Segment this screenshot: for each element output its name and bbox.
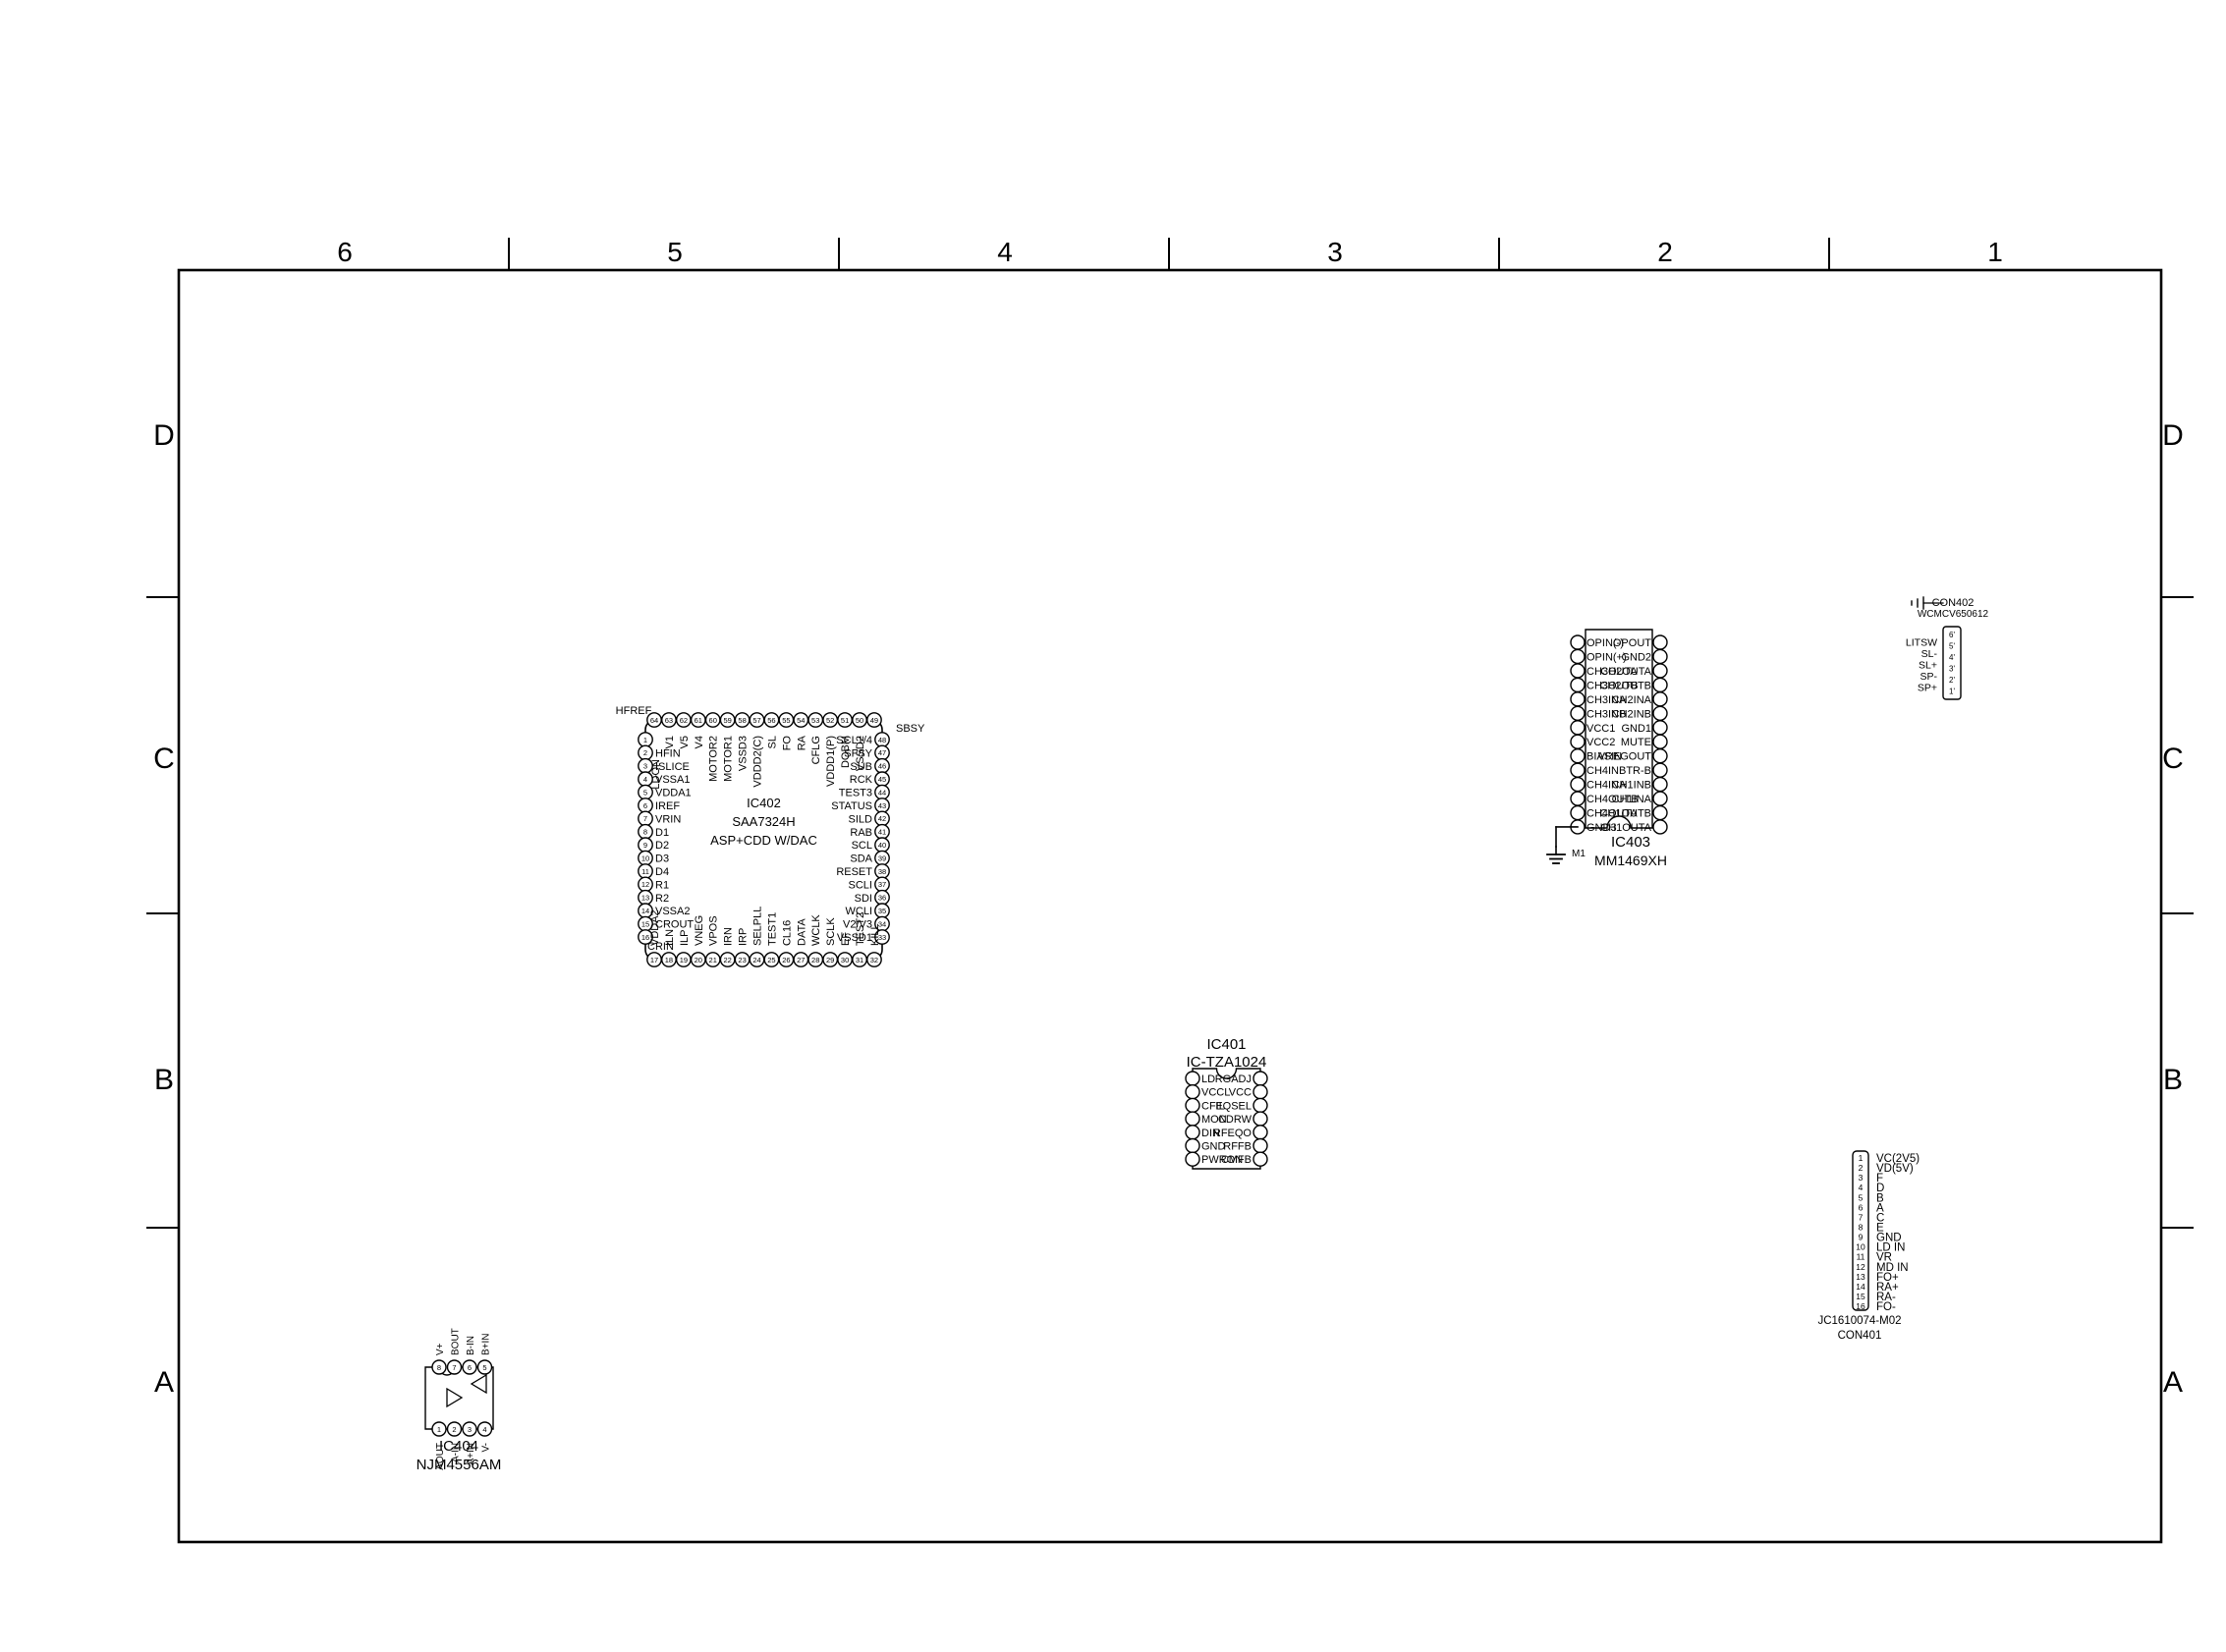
svg-text:TEST1: TEST1 (766, 912, 778, 946)
svg-text:39: 39 (878, 854, 886, 862)
svg-text:60: 60 (709, 716, 717, 725)
svg-text:D: D (153, 419, 175, 452)
svg-text:RGADJ: RGADJ (1215, 1074, 1252, 1085)
svg-text:WCLK: WCLK (810, 914, 822, 946)
svg-text:CMFB: CMFB (1221, 1154, 1252, 1166)
svg-text:8: 8 (643, 828, 647, 837)
svg-text:9: 9 (643, 841, 647, 850)
svg-text:12: 12 (1856, 1262, 1865, 1272)
svg-text:29: 29 (826, 956, 834, 964)
svg-text:19: 19 (680, 956, 688, 964)
svg-text:MOTOR1: MOTOR1 (723, 736, 735, 782)
svg-text:14: 14 (641, 907, 649, 915)
svg-text:LD: LD (1201, 1074, 1215, 1085)
svg-text:V+: V+ (435, 1343, 446, 1355)
svg-text:D3: D3 (655, 854, 669, 865)
svg-text:V4: V4 (694, 736, 705, 748)
svg-text:SP-: SP- (1920, 671, 1937, 683)
svg-text:41: 41 (878, 828, 886, 837)
svg-text:RFFB: RFFB (1223, 1141, 1252, 1153)
svg-text:38: 38 (878, 867, 886, 876)
svg-text:BOUT: BOUT (451, 1328, 462, 1355)
svg-text:4: 4 (997, 237, 1013, 267)
svg-text:2: 2 (1657, 237, 1673, 267)
svg-text:50: 50 (856, 716, 863, 725)
svg-text:CL16: CL16 (781, 920, 793, 946)
svg-text:SCLK: SCLK (825, 917, 837, 946)
svg-text:3: 3 (1327, 237, 1343, 267)
svg-text:12: 12 (641, 880, 649, 889)
svg-text:37: 37 (878, 880, 886, 889)
svg-text:9: 9 (1859, 1233, 1864, 1242)
svg-text:SDA: SDA (850, 854, 872, 865)
svg-text:B: B (2163, 1064, 2183, 1096)
svg-text:SCLI: SCLI (849, 879, 872, 891)
svg-text:SCL: SCL (852, 840, 872, 852)
svg-text:SAA7324H: SAA7324H (732, 814, 795, 829)
svg-text:53: 53 (811, 716, 819, 725)
svg-text:6': 6' (1949, 631, 1955, 639)
svg-text:C: C (153, 743, 175, 775)
svg-text:CH1OUTB: CH1OUTB (1599, 808, 1651, 820)
svg-text:52: 52 (826, 716, 834, 725)
svg-text:CH2INB: CH2INB (1612, 708, 1651, 720)
svg-text:CON401: CON401 (1838, 1330, 1882, 1342)
svg-text:6: 6 (337, 237, 353, 267)
svg-text:VDDA1: VDDA1 (655, 788, 692, 799)
svg-text:27: 27 (797, 956, 805, 964)
svg-text:25: 25 (767, 956, 775, 964)
svg-text:VCC2: VCC2 (1586, 737, 1615, 748)
svg-text:VPOS: VPOS (708, 915, 720, 946)
svg-text:10: 10 (641, 854, 649, 862)
svg-text:55: 55 (782, 716, 790, 725)
svg-text:17: 17 (650, 956, 658, 964)
svg-text:54: 54 (797, 716, 805, 725)
svg-text:18: 18 (665, 956, 673, 964)
svg-text:CDRW: CDRW (1218, 1114, 1252, 1126)
svg-text:VRIN: VRIN (655, 813, 681, 825)
svg-text:D: D (2162, 419, 2184, 452)
svg-text:57: 57 (752, 716, 760, 725)
svg-text:EF: EF (840, 932, 852, 946)
svg-text:59: 59 (723, 716, 731, 725)
svg-text:TEST2: TEST2 (855, 912, 866, 946)
svg-text:23: 23 (738, 956, 746, 964)
svg-text:43: 43 (878, 801, 886, 810)
svg-text:MM1469XH: MM1469XH (1594, 853, 1667, 868)
svg-text:FO: FO (781, 736, 793, 751)
svg-text:CH2INA: CH2INA (1612, 694, 1652, 706)
svg-text:4: 4 (482, 1425, 486, 1434)
svg-text:36: 36 (878, 894, 886, 903)
svg-text:26: 26 (782, 956, 790, 964)
svg-text:VCC1: VCC1 (1586, 723, 1615, 735)
svg-text:6: 6 (468, 1363, 472, 1372)
svg-text:SL-: SL- (1921, 648, 1938, 660)
svg-text:MUTE: MUTE (1621, 737, 1651, 748)
svg-text:7: 7 (643, 814, 647, 823)
svg-text:LITSW: LITSW (1906, 637, 1937, 649)
svg-text:24: 24 (752, 956, 760, 964)
svg-text:ILP: ILP (679, 929, 691, 946)
svg-text:V-: V- (481, 1443, 492, 1452)
svg-text:GND: GND (1201, 1141, 1226, 1153)
svg-text:C: C (2162, 743, 2184, 775)
svg-text:61: 61 (695, 716, 702, 725)
svg-text:MOTOR2: MOTOR2 (708, 736, 720, 782)
svg-text:VDDA2: VDDA2 (649, 909, 661, 946)
svg-text:CH1INA: CH1INA (1612, 794, 1652, 805)
svg-text:TR-B: TR-B (1626, 765, 1651, 777)
svg-text:49: 49 (870, 716, 878, 725)
svg-text:CH2OUTA: CH2OUTA (1600, 666, 1651, 678)
svg-text:CH1OUTA: CH1OUTA (1600, 822, 1651, 834)
svg-text:DATA: DATA (796, 918, 807, 946)
svg-text:IRN: IRN (723, 927, 735, 946)
svg-text:5: 5 (1859, 1192, 1864, 1202)
svg-text:VDDD2(C): VDDD2(C) (752, 736, 764, 788)
svg-text:SL+: SL+ (1919, 660, 1937, 672)
svg-text:HFIN: HFIN (655, 747, 681, 759)
svg-text:4: 4 (643, 775, 647, 784)
svg-text:4': 4' (1949, 653, 1955, 662)
svg-text:ISLICE: ISLICE (655, 761, 690, 773)
svg-text:45: 45 (878, 775, 886, 784)
svg-text:SILD: SILD (849, 813, 873, 825)
svg-text:SFSY: SFSY (844, 747, 872, 759)
svg-text:44: 44 (878, 788, 886, 797)
svg-text:11: 11 (1857, 1252, 1865, 1262)
svg-text:35: 35 (878, 907, 886, 915)
svg-text:SBSY: SBSY (896, 723, 925, 735)
svg-text:42: 42 (878, 814, 886, 823)
svg-text:40: 40 (878, 841, 886, 850)
svg-text:56: 56 (767, 716, 775, 725)
svg-text:21: 21 (709, 956, 717, 964)
svg-text:28: 28 (811, 956, 819, 964)
svg-text:5: 5 (667, 237, 683, 267)
svg-text:5: 5 (643, 788, 647, 797)
svg-text:51: 51 (841, 716, 849, 725)
svg-text:RA: RA (796, 735, 807, 750)
svg-text:5: 5 (482, 1363, 486, 1372)
svg-text:VSSD3: VSSD3 (738, 736, 750, 771)
svg-text:IREF: IREF (655, 800, 680, 812)
svg-text:IC404: IC404 (439, 1438, 478, 1455)
svg-text:D1: D1 (655, 827, 669, 839)
svg-text:6: 6 (1859, 1202, 1864, 1212)
svg-text:JC1610074-M02: JC1610074-M02 (1817, 1315, 1901, 1327)
svg-text:2': 2' (1949, 676, 1955, 685)
svg-text:11: 11 (641, 867, 649, 876)
svg-text:5': 5' (1949, 642, 1955, 651)
svg-text:RAB: RAB (850, 827, 872, 839)
svg-text:15: 15 (1856, 1292, 1865, 1301)
svg-text:VNEG: VNEG (694, 915, 705, 946)
svg-text:10: 10 (1856, 1242, 1865, 1252)
svg-text:NJM4556AM: NJM4556AM (417, 1457, 502, 1473)
svg-text:62: 62 (680, 716, 688, 725)
svg-text:TEST3: TEST3 (839, 788, 872, 799)
svg-text:VCC: VCC (1229, 1087, 1252, 1099)
svg-text:B+IN: B+IN (481, 1333, 492, 1355)
svg-text:63: 63 (665, 716, 673, 725)
svg-text:SL: SL (766, 736, 778, 748)
svg-text:ASP+CDD W/DAC: ASP+CDD W/DAC (710, 833, 817, 848)
svg-text:IC-TZA1024: IC-TZA1024 (1187, 1054, 1267, 1071)
svg-text:16: 16 (1856, 1301, 1865, 1311)
svg-text:VREGOUT: VREGOUT (1598, 751, 1652, 763)
svg-text:3: 3 (468, 1425, 472, 1434)
svg-text:7: 7 (452, 1363, 456, 1372)
svg-text:RESET: RESET (836, 866, 872, 878)
svg-text:IRP: IRP (738, 928, 750, 946)
svg-text:SP+: SP+ (1918, 683, 1937, 694)
svg-text:R1: R1 (655, 879, 669, 891)
svg-text:15: 15 (641, 919, 649, 928)
svg-text:30: 30 (841, 956, 849, 964)
svg-text:2: 2 (452, 1425, 456, 1434)
svg-text:46: 46 (878, 762, 886, 771)
svg-text:OPOUT: OPOUT (1613, 637, 1651, 649)
svg-text:CH2OUTB: CH2OUTB (1599, 680, 1651, 691)
svg-text:GND1: GND1 (1621, 723, 1651, 735)
svg-text:FO-: FO- (1876, 1301, 1896, 1313)
svg-text:1': 1' (1949, 688, 1955, 696)
svg-text:CH1INB: CH1INB (1612, 780, 1651, 792)
svg-text:20: 20 (695, 956, 702, 964)
svg-text:8: 8 (1859, 1222, 1864, 1232)
svg-text:WCMCV650612: WCMCV650612 (1918, 609, 1989, 620)
svg-text:STATUS: STATUS (831, 800, 872, 812)
svg-text:14: 14 (1856, 1282, 1865, 1292)
svg-text:3: 3 (1859, 1173, 1864, 1183)
svg-text:13: 13 (1856, 1272, 1865, 1282)
svg-text:B-IN: B-IN (466, 1336, 476, 1355)
svg-text:A: A (154, 1366, 174, 1399)
svg-text:2: 2 (1859, 1163, 1864, 1173)
svg-text:7: 7 (1859, 1212, 1864, 1222)
svg-text:ILN: ILN (664, 929, 676, 946)
svg-text:RCK: RCK (850, 774, 873, 786)
svg-text:EQSEL: EQSEL (1215, 1100, 1252, 1112)
svg-text:A: A (2163, 1366, 2183, 1399)
svg-text:4: 4 (1859, 1183, 1864, 1192)
svg-text:6: 6 (643, 801, 647, 810)
svg-text:1: 1 (1859, 1153, 1864, 1163)
svg-text:3': 3' (1949, 665, 1955, 674)
svg-text:48: 48 (878, 736, 886, 744)
svg-text:R2: R2 (655, 893, 669, 905)
svg-text:D2: D2 (655, 840, 669, 852)
svg-text:D4: D4 (655, 866, 669, 878)
svg-text:GND2: GND2 (1621, 651, 1651, 663)
svg-text:8: 8 (437, 1363, 441, 1372)
svg-text:SUB: SUB (850, 761, 872, 773)
svg-text:IC402: IC402 (747, 796, 781, 810)
svg-text:64: 64 (650, 716, 658, 725)
svg-text:2: 2 (643, 748, 647, 757)
svg-text:CFLG: CFLG (810, 736, 822, 764)
svg-text:VCCL: VCCL (1201, 1087, 1230, 1099)
svg-text:M1: M1 (1572, 849, 1586, 859)
svg-text:SDI: SDI (855, 893, 872, 905)
svg-text:1: 1 (1987, 237, 2003, 267)
svg-text:IC403: IC403 (1611, 834, 1650, 851)
svg-text:SELPLL: SELPLL (752, 907, 764, 946)
svg-text:B: B (154, 1064, 174, 1096)
svg-text:VSSA1: VSSA1 (655, 774, 690, 786)
svg-text:CH4INB: CH4INB (1586, 765, 1626, 777)
svg-text:SCL1/4: SCL1/4 (836, 735, 872, 746)
svg-text:58: 58 (738, 716, 746, 725)
svg-text:47: 47 (878, 748, 886, 757)
svg-text:IC401: IC401 (1206, 1036, 1246, 1053)
svg-text:KILL: KILL (869, 923, 881, 946)
svg-text:32: 32 (870, 956, 878, 964)
svg-text:13: 13 (641, 894, 649, 903)
svg-text:3: 3 (643, 762, 647, 771)
svg-text:22: 22 (723, 956, 731, 964)
svg-text:1: 1 (643, 736, 647, 744)
svg-text:HFREF: HFREF (616, 705, 652, 717)
svg-text:1: 1 (437, 1425, 441, 1434)
svg-text:RFEQO: RFEQO (1213, 1128, 1252, 1139)
svg-text:31: 31 (856, 956, 863, 964)
